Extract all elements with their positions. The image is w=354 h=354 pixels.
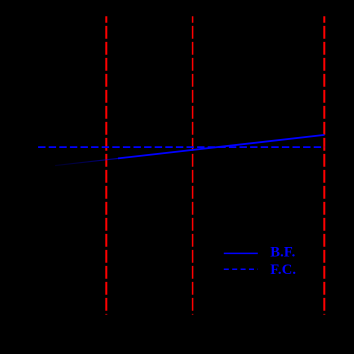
blue solid line B.F. main bbox=[118, 135, 325, 159]
svg-text:F.C.: F.C. bbox=[270, 262, 296, 278]
legend dashed line sample bbox=[224, 268, 258, 270]
red dashed vertical line (middle) bbox=[192, 16, 194, 314]
svg-text:B.F.: B.F. bbox=[270, 245, 295, 261]
red dashed vertical line (right) bbox=[323, 16, 325, 314]
blue dashed horizontal line F.C. bbox=[38, 146, 324, 148]
legend solid line sample bbox=[224, 252, 258, 254]
blue solid line B.F. faint left tail bbox=[55, 158, 118, 165]
red dashed vertical line (left) bbox=[105, 16, 107, 314]
